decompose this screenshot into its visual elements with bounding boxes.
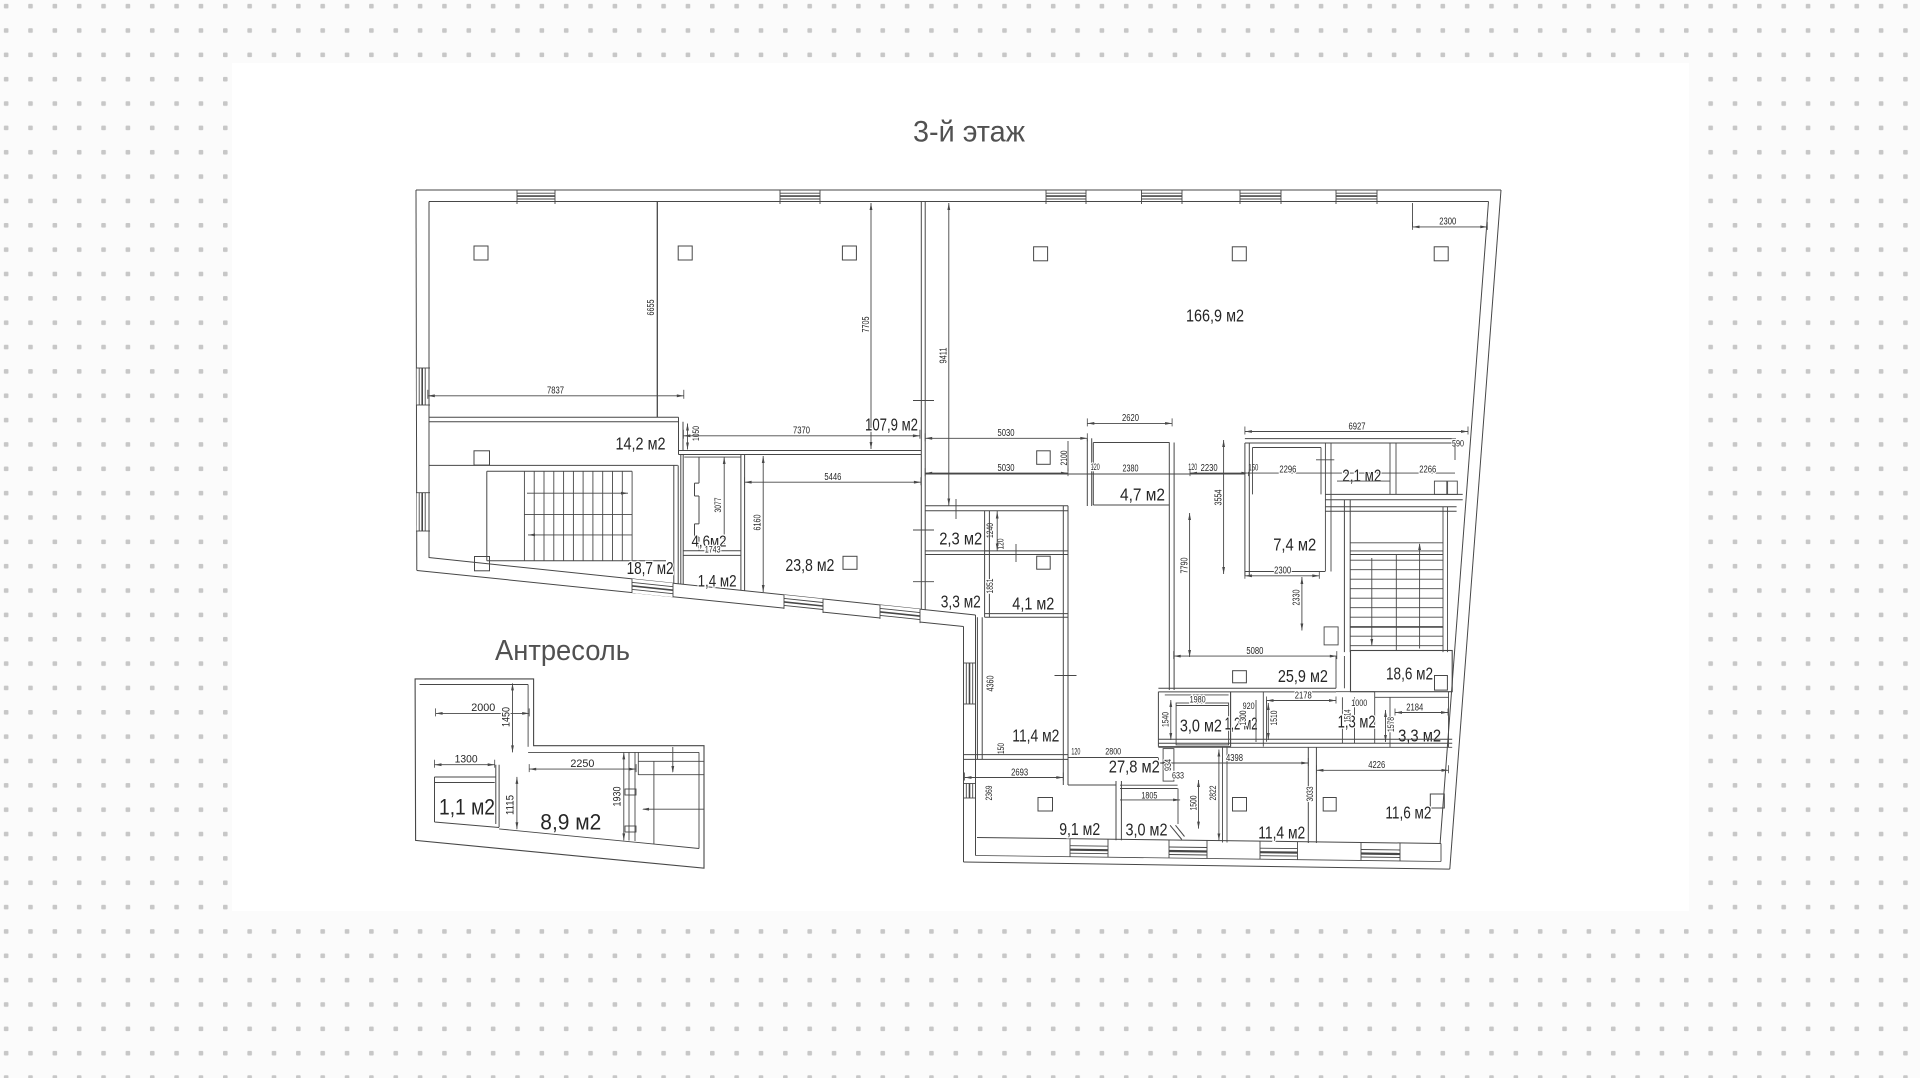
stair treads	[523, 471, 525, 561]
svg-text:4360: 4360	[986, 675, 997, 691]
wall top of 2,1 band	[1245, 438, 1456, 440]
svg-text:5446: 5446	[824, 472, 841, 483]
bottom right inner corner jog	[1440, 844, 1442, 862]
svg-text:4,7 м2: 4,7 м2	[1120, 485, 1165, 505]
stair down arrow	[528, 534, 632, 536]
windows left wall	[417, 368, 429, 405]
wall left of 3,0 bottom	[1115, 781, 1117, 840]
right section inner bottom line	[977, 838, 1441, 844]
right section window sill line bottom	[976, 856, 1442, 862]
wall right of 1,4 rooms	[680, 455, 682, 585]
room 4,6 top line	[684, 456, 741, 458]
stair up arrow	[527, 492, 628, 494]
wall below room 107,9 - lower line	[679, 454, 922, 456]
svg-text:25,9 м2: 25,9 м2	[1278, 666, 1328, 686]
room 3,0 bottom right wall	[1177, 789, 1179, 825]
svg-text:2266: 2266	[1419, 465, 1436, 476]
middle band bottom wall	[1158, 738, 1452, 740]
right stair beam lines	[1350, 550, 1443, 552]
room 3,0 bottom top wall	[1120, 784, 1178, 786]
room 11,4 bottom wall	[964, 754, 1069, 756]
wall left of 7,4	[1244, 443, 1246, 576]
svg-text:934: 934	[1163, 759, 1173, 771]
svg-text:3554: 3554	[1214, 489, 1225, 505]
svg-text:1,1 м2: 1,1 м2	[439, 795, 495, 820]
slanted bottom wall of left wing - lower line	[417, 571, 964, 627]
svg-text:1000: 1000	[1351, 698, 1367, 709]
svg-text:1500: 1500	[1189, 796, 1200, 811]
door tick wall 4,1 top	[1015, 544, 1017, 562]
stairwell bottom-left column	[475, 557, 490, 571]
wall stub vertical right of 14,2	[678, 417, 680, 454]
outer wall right slanted	[1450, 190, 1501, 869]
svg-text:5080: 5080	[1246, 646, 1263, 657]
dim 1500 rotated	[1198, 780, 1200, 829]
svg-text:4226: 4226	[1368, 760, 1385, 771]
svg-text:1300: 1300	[1238, 711, 1249, 726]
dim 4226	[1316, 769, 1448, 771]
dim 7790 rotated	[1189, 513, 1191, 657]
mezz stair down arrow	[672, 747, 674, 772]
svg-text:2250: 2250	[570, 758, 594, 770]
svg-text:1980: 1980	[1190, 695, 1206, 706]
right stairwell niche	[1324, 627, 1338, 645]
dim 1578 rotated	[1385, 710, 1387, 742]
svg-text:5030: 5030	[998, 463, 1015, 474]
windows top wall	[517, 191, 555, 201]
svg-text:2330: 2330	[1292, 589, 1303, 605]
svg-text:1450: 1450	[500, 707, 512, 727]
door tick top wall 2,3	[955, 499, 957, 519]
dim 1300	[435, 764, 495, 766]
right section outer bottom wall	[964, 862, 1450, 869]
windows bottom wall right section	[1069, 839, 1071, 857]
room 11,4 left wall	[976, 617, 978, 759]
svg-text:1050: 1050	[691, 426, 702, 441]
column in room 4,1	[1037, 556, 1051, 569]
wall x=1063-1068 vertical	[1062, 506, 1064, 785]
svg-text:2620: 2620	[1122, 413, 1139, 424]
columns row 1	[474, 246, 488, 260]
svg-text:6927: 6927	[1349, 421, 1366, 432]
columns bottom row	[1233, 798, 1247, 812]
small box below 3,0 mid	[1163, 749, 1174, 782]
outer wall top	[416, 189, 1501, 191]
wall between 2,3 and 3,3	[925, 550, 989, 552]
dim 5030 lower	[925, 472, 1068, 474]
right section left inner wall	[975, 615, 977, 856]
svg-text:1514: 1514	[1342, 710, 1352, 723]
right section left outer wall	[963, 627, 965, 863]
svg-text:11,6 м2: 11,6 м2	[1385, 803, 1431, 823]
svg-text:5030: 5030	[998, 428, 1015, 439]
room 18,6 box	[1351, 651, 1453, 692]
room 4,7 left wall	[1086, 438, 1088, 506]
svg-text:150: 150	[1248, 463, 1258, 474]
mezzanine inner top line	[420, 684, 529, 686]
stairwell right wall	[673, 465, 675, 583]
wall x=1169-1174 vertical	[1168, 443, 1170, 691]
tick on main wall	[913, 400, 934, 402]
svg-text:107,9 м2: 107,9 м2	[865, 415, 918, 435]
rooms 3,3/4,1 bottom wall	[985, 613, 1068, 615]
room 3,0 mid box inner	[1176, 703, 1229, 745]
stairwell top wall	[429, 464, 678, 466]
outer wall left	[415, 190, 418, 571]
svg-text:1743: 1743	[705, 545, 721, 555]
dim 3077 rotated	[723, 457, 725, 545]
svg-text:1,4 м2: 1,4 м2	[698, 572, 737, 591]
inner wall left	[428, 202, 430, 558]
svg-text:920: 920	[1243, 701, 1255, 712]
2,1 band left subroom inner box	[1253, 448, 1322, 495]
svg-text:23,8 м2: 23,8 м2	[785, 555, 834, 575]
wall below 2,1 band	[1325, 493, 1462, 495]
column in 9,1	[1038, 798, 1053, 812]
wall right of corridor x=741-745	[740, 455, 742, 591]
svg-text:9411: 9411	[939, 347, 950, 363]
stairwell left column	[474, 451, 490, 465]
dim 1510 rotated	[1267, 703, 1269, 740]
svg-text:1240: 1240	[985, 523, 996, 538]
svg-text:3,3 м2: 3,3 м2	[1398, 726, 1441, 746]
svg-text:11,4 м2: 11,4 м2	[1012, 726, 1059, 746]
dim 2178	[1267, 700, 1337, 702]
wall top of middle band	[1158, 687, 1336, 689]
right stair stringer	[1442, 507, 1444, 652]
wall left of bottom 11,4 room	[1222, 747, 1224, 842]
main vertical wall x=921-925	[920, 202, 922, 610]
room 3,0 mid box outer	[1158, 692, 1230, 747]
dim 2000	[436, 712, 530, 714]
tick on wall x1063	[1055, 675, 1077, 677]
right stair treads	[1350, 559, 1443, 561]
dim line y=473 continuation	[1248, 472, 1455, 474]
svg-text:166,9 м2: 166,9 м2	[1186, 306, 1244, 326]
room 1,2 walls	[1230, 692, 1232, 747]
door tick in 2,1 band	[1316, 459, 1334, 461]
inner wall right slanted	[1440, 202, 1488, 844]
dim 2300 top right	[1413, 226, 1488, 228]
right stair landing edge	[1350, 542, 1443, 544]
svg-text:2,3 м2: 2,3 м2	[939, 529, 982, 549]
right stair mid landing	[1350, 626, 1443, 628]
svg-text:1300: 1300	[455, 754, 478, 766]
svg-text:2,1 м2: 2,1 м2	[1342, 466, 1381, 486]
svg-text:14,2 м2: 14,2 м2	[616, 434, 666, 454]
svg-text:1930: 1930	[611, 787, 623, 807]
dim 2230	[1190, 472, 1248, 474]
svg-text:18,6 м2: 18,6 м2	[1386, 664, 1433, 684]
svg-text:633: 633	[1172, 771, 1184, 781]
dim 1050 rotated	[687, 424, 689, 450]
mezzanine inner step lines	[527, 685, 529, 747]
dim 2330 rotated	[1301, 577, 1303, 631]
svg-text:2184: 2184	[1406, 702, 1423, 713]
svg-text:2178: 2178	[1295, 690, 1312, 701]
svg-text:11,4 м2: 11,4 м2	[1258, 823, 1305, 843]
dim 7370	[683, 435, 920, 437]
dim 2184	[1395, 712, 1448, 714]
stairwell inner box	[487, 471, 666, 561]
dim 9411 vertical	[948, 203, 950, 506]
wall y=506-511 long	[925, 505, 1068, 507]
svg-text:9,1 м2: 9,1 м2	[1059, 819, 1100, 839]
dim 6160 vertical	[762, 456, 764, 592]
mezzanine inner right line	[698, 752, 700, 848]
svg-text:8,9 м2: 8,9 м2	[540, 810, 601, 835]
windows left edge right section	[964, 662, 977, 664]
dim 5446	[745, 481, 921, 483]
svg-text:7705: 7705	[861, 316, 872, 332]
room 3,3 right walls	[1389, 697, 1391, 747]
dim 6927	[1245, 431, 1468, 433]
dim line 1240	[996, 511, 998, 551]
room 4,1 top wall	[985, 550, 1068, 552]
inner wall top	[429, 201, 1489, 203]
svg-text:2693: 2693	[1011, 767, 1028, 778]
wall above room 14,2 - upper line	[429, 416, 679, 418]
svg-text:3,0 м2: 3,0 м2	[1126, 820, 1168, 840]
room 7,4 bottom wall	[1245, 571, 1325, 573]
dim 7705 rotated	[870, 203, 872, 449]
corridor room walls mid	[1266, 701, 1268, 742]
column in 18,6	[1435, 676, 1448, 691]
svg-text:7,4 м2: 7,4 м2	[1273, 535, 1316, 555]
column near 23,8	[843, 556, 857, 569]
svg-text:3-й этаж: 3-й этаж	[913, 116, 1025, 149]
stub walls below stair west wall	[1335, 656, 1337, 688]
svg-text:1115: 1115	[504, 795, 516, 815]
dim 1450 rotated	[512, 683, 514, 752]
dim 7837	[428, 395, 684, 397]
stair mid landing line	[524, 513, 632, 515]
dim 2300 below 7,4	[1245, 575, 1319, 577]
svg-text:6160: 6160	[753, 514, 764, 530]
wall between two big top rooms	[656, 202, 658, 418]
svg-text:590: 590	[1452, 439, 1464, 450]
room 4,7 box	[1093, 443, 1169, 506]
svg-text:3,3 м2: 3,3 м2	[941, 592, 981, 612]
right stair central rails	[1395, 555, 1397, 651]
mezzanine outer outline	[415, 679, 704, 868]
right stair up arrow	[1418, 543, 1421, 550]
dim 2693	[965, 777, 1064, 779]
svg-text:7790: 7790	[1180, 557, 1191, 573]
svg-text:3077: 3077	[713, 498, 724, 513]
2,1 band partitions	[1324, 443, 1326, 572]
dim 1115 rotated	[516, 777, 518, 829]
room 8,9 floor slant line	[499, 829, 699, 849]
room 1,3 walls	[1341, 697, 1343, 743]
svg-text:4398: 4398	[1226, 753, 1243, 764]
svg-text:150: 150	[996, 743, 1007, 754]
wall below room 107,9 - upper line	[679, 450, 922, 452]
room 1,1 box	[435, 765, 500, 828]
svg-text:1510: 1510	[1269, 711, 1280, 726]
svg-text:1578: 1578	[1386, 717, 1397, 732]
dim 3554 rotated	[1223, 440, 1225, 574]
svg-text:2296: 2296	[1279, 465, 1296, 476]
svg-text:Антресоль: Антресоль	[495, 635, 630, 667]
svg-text:7837: 7837	[547, 386, 564, 397]
wall above room 14,2 - lower line	[429, 421, 679, 423]
slanted bottom wall of left wing - upper line	[429, 558, 976, 616]
svg-text:2380: 2380	[1123, 464, 1139, 475]
svg-text:1851: 1851	[985, 579, 996, 594]
svg-text:2822: 2822	[1208, 786, 1219, 801]
dim 5030 upper	[925, 437, 1087, 439]
wall between 8,9 and mezz stair	[628, 752, 630, 840]
wall between 11,4 and 11,6	[1307, 747, 1309, 843]
svg-text:2300: 2300	[1274, 566, 1291, 577]
corridor step line above 9,1	[1068, 784, 1116, 786]
svg-text:1540: 1540	[1161, 712, 1172, 727]
svg-text:2300: 2300	[1439, 217, 1456, 228]
wall between 2,3 and 4,1	[984, 511, 986, 617]
svg-text:120: 120	[1071, 747, 1080, 758]
room 4,6 niche wall	[695, 457, 700, 551]
svg-text:2230: 2230	[1201, 463, 1218, 474]
svg-text:27,8 м2: 27,8 м2	[1109, 757, 1160, 777]
svg-text:120: 120	[1091, 462, 1100, 473]
svg-text:3033: 3033	[1305, 787, 1316, 802]
dim 2250	[529, 768, 636, 770]
right stair down arrow	[1371, 558, 1373, 645]
svg-text:18,7 м2: 18,7 м2	[627, 558, 674, 578]
svg-text:4,1 м2: 4,1 м2	[1012, 594, 1054, 614]
ticks on main wall x921	[913, 529, 934, 531]
mezz stair left arrow	[643, 808, 704, 810]
door jambs mezz	[625, 789, 636, 795]
right stairwell west wall	[1343, 500, 1345, 652]
room 4,6 bottom wall	[683, 550, 741, 552]
column left of 25,9	[1233, 671, 1247, 683]
dim 4398	[1158, 762, 1308, 764]
dim 2822 rotated	[1218, 750, 1220, 841]
dim 1540 rotated	[1170, 700, 1172, 740]
svg-text:2000: 2000	[471, 702, 495, 714]
dim 2620	[1087, 422, 1172, 424]
small boxes right of 2,1	[1434, 481, 1446, 494]
white plan area	[232, 63, 1689, 911]
svg-text:6655: 6655	[646, 299, 657, 315]
mezz stair lines	[637, 752, 639, 775]
windows slanted wall	[632, 579, 673, 597]
column below 5030	[1037, 451, 1051, 465]
chamfer door of 3,0	[1170, 825, 1182, 839]
dim 1930 rotated	[623, 752, 625, 840]
svg-text:3,0 м2: 3,0 м2	[1180, 716, 1222, 736]
svg-text:2369: 2369	[984, 786, 995, 801]
dim 5080	[1174, 655, 1337, 657]
svg-text:7370: 7370	[793, 426, 810, 437]
